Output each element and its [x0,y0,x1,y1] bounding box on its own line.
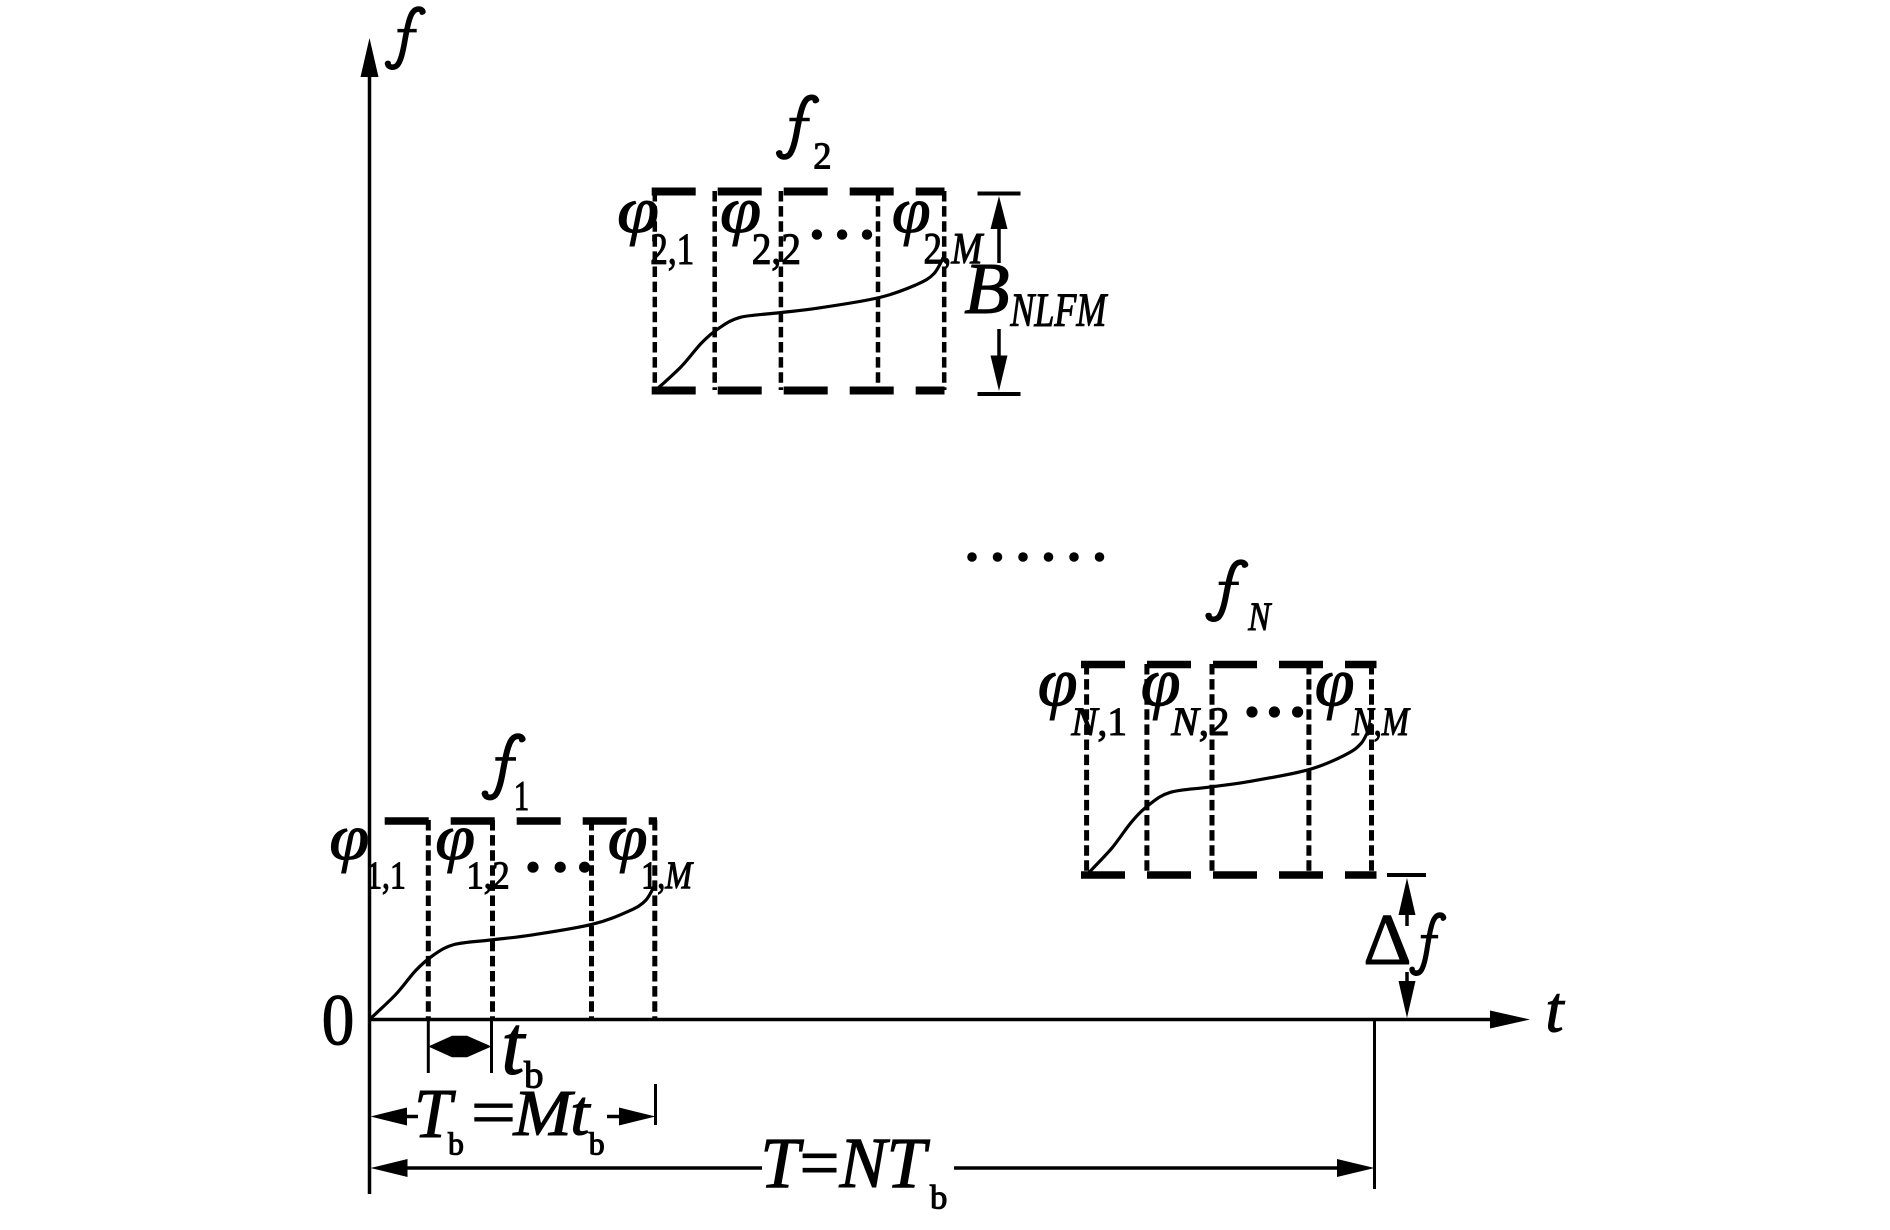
fN box left edge [1084,664,1089,874]
T dimension right extension line [1373,1021,1376,1189]
svg-text:b: b [448,1127,464,1162]
f2 box right edge [942,191,947,390]
ellipsis dots in f2 box [812,229,822,239]
axis label f [386,9,425,67]
svg-text:1,2: 1,2 [467,854,510,898]
f2 NLFM S-curve [656,256,945,391]
fN box bottom dashed line [1081,871,1377,879]
svg-text:1: 1 [514,773,529,820]
f2 box top dashed line [652,188,945,196]
svg-text:2: 2 [813,135,831,177]
f1 NLFM S-curve [370,882,656,1019]
fN NLFM S-curve [1087,723,1372,875]
B_NLFM down arrow [997,329,1001,356]
svg-text:φ: φ [1315,645,1355,722]
svg-text:0: 0 [322,980,355,1060]
f2 box divider 2 [779,191,784,390]
svg-text:t: t [1545,973,1565,1046]
svg-text:1,M: 1,M [641,853,694,897]
svg-text:=: = [471,1075,516,1150]
label f1 [483,736,525,797]
Tb = M tb dimension line [371,1108,408,1126]
f2 box divider 1 [712,191,717,390]
svg-text:N,1: N,1 [1070,699,1126,745]
svg-text:2,1: 2,1 [650,223,694,273]
f axis (vertical) [368,70,372,1194]
label f2 [777,97,818,157]
svg-text:NLFM: NLFM [1010,285,1108,337]
label fN [1206,562,1247,619]
delta f down arrow [1405,972,1409,981]
t_b extension lines [427,1021,430,1073]
f1 box top dashed line [385,817,657,825]
delta f up arrow [1399,878,1416,915]
t_b diamond arrow [428,1036,491,1057]
f1 box divider 1 [426,820,431,1018]
t axis (horizontal) [368,1018,1493,1022]
B_NLFM dimension bottom tick [978,392,1021,396]
fN box divider 3 [1306,664,1311,874]
ellipsis dots in f1 box [527,862,538,873]
svg-text:1,1: 1,1 [366,853,406,897]
svg-text:N: N [1247,594,1272,639]
svg-text:Δ: Δ [1363,899,1411,980]
fN box divider 2 [1210,664,1215,874]
f2 box bottom dashed line [652,387,945,395]
fN box divider 1 [1144,664,1149,874]
f2 box divider 3 [876,191,881,390]
svg-text:2,2: 2,2 [752,225,801,274]
f1 box right edge [652,820,657,1018]
svg-text:B: B [964,247,1009,329]
T = N Tb dimension line [371,1159,408,1177]
svg-text:T=NT: T=NT [760,1124,930,1203]
svg-text:b: b [930,1179,947,1217]
center ellipsis dots [967,552,977,562]
delta f dimension top tick [1387,873,1426,877]
svg-text:N,M: N,M [1351,699,1411,744]
svg-text:M: M [512,1077,575,1150]
fN box top dashed line [1081,661,1377,669]
svg-text:t: t [570,1078,591,1149]
f1 box divider 2 [490,820,495,1018]
svg-text:φ: φ [329,801,369,873]
f2 box left edge [653,191,658,390]
fN box right edge [1369,664,1374,874]
svg-text:b: b [589,1127,605,1162]
B_NLFM dimension top tick [978,192,1021,196]
Tb dimension right extension line [654,1084,657,1125]
ellipsis dots in fN box [1246,706,1257,717]
svg-text:N,2: N,2 [1170,699,1229,744]
B_NLFM up arrow [991,196,1008,229]
f1 box divider 3 [589,820,594,1018]
